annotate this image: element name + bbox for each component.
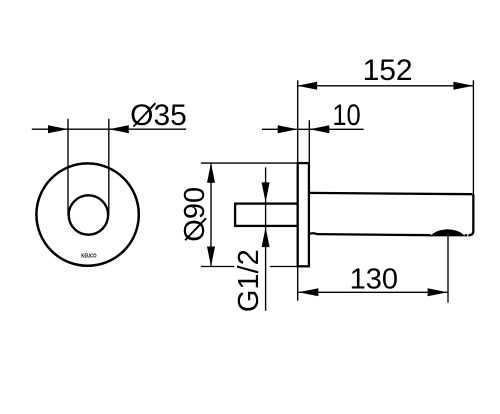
svg-text:10: 10 [332,98,360,131]
thread nipple G1/2 (side view) [235,204,298,226]
dim G1/2 dimension line [265,167,267,310]
svg-text:152: 152 [363,54,413,87]
svg-text:130: 130 [350,264,398,296]
dim G1/2 arrow lower [262,227,270,247]
dim 10 dimension line [262,128,364,130]
dim Ø90 dimension line [210,163,212,267]
dim 152 dimension line [297,85,474,87]
dim 130 dimension line [298,291,447,293]
spout tube top line [309,193,472,194]
spout end face [468,194,473,235]
dim Ø90 label slash [185,218,206,240]
dim 130 arrow right [428,288,448,296]
dim 130 arrow left [298,288,318,296]
wall plane extension line (left of 152/10/130) [297,80,299,300]
dim Ø35 dimension line [32,128,186,130]
wall plate (side view) [298,163,309,266]
dim Ø90 extension line bottom right segment [270,266,298,268]
dim G1/2 arrow upper [262,182,270,202]
escutcheon outer circle (front view) [36,163,138,265]
dim Ø90 extension line top [201,162,298,164]
svg-text:KEUCO: KEUCO [81,253,96,259]
dim Ø35 arrow left [48,125,68,133]
aerator outlet dome [430,229,465,236]
dim 152 arrow left [297,82,317,90]
dim 152 extension line right [472,80,474,194]
dim Ø90 arrow bottom [207,247,215,267]
dim Ø35 arrow right [109,125,129,133]
spout tube inner circle (front view) [69,195,108,234]
dim 130 extension line right [447,236,449,303]
dim Ø90 extension line bottom left segment [201,266,234,268]
dim Ø35 extension line left [67,119,69,216]
svg-text:G1/2: G1/2 [233,249,265,312]
dim Ø35 extension line right [108,119,110,216]
spout tube bottom line [309,233,467,235]
dim Ø35 label slash [133,103,155,126]
dim Ø90 arrow top [207,163,215,183]
dim 152 arrow right [453,82,473,90]
dim 10 arrow right [309,125,329,133]
dim 10 extension line right [308,120,310,163]
dim 10 arrow left [278,125,298,133]
svg-text:O35: O35 [130,99,187,132]
svg-text:O90: O90 [179,187,211,242]
